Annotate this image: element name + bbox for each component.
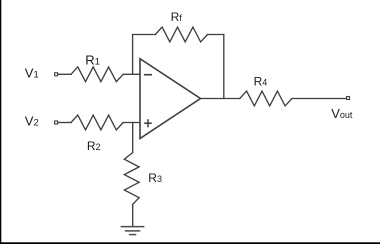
- svg-text:Vout: Vout: [331, 106, 353, 121]
- resistor Rf: [155, 27, 207, 42]
- svg-text:R3: R3: [148, 171, 162, 185]
- resistor R1: [71, 67, 123, 82]
- resistor R4: [240, 91, 292, 106]
- wire Rf to feedback right corner: [208, 34, 224, 36]
- wire op-amp output to R4: [201, 98, 240, 100]
- wire R1 to op-amp inverting input: [123, 73, 140, 75]
- terminal V2: [55, 121, 58, 124]
- svg-text:R2: R2: [87, 139, 101, 153]
- terminal V1: [55, 73, 58, 76]
- wire R2 to op-amp non-inverting input: [123, 122, 140, 124]
- junction feedback tap on inverting input: [132, 35, 134, 75]
- axis frame left: [0, 0, 1, 244]
- op-amp non-inverting pin plus sign: [144, 119, 152, 127]
- axis frame bottom: [0, 242, 380, 244]
- svg-text:Rf: Rf: [171, 10, 183, 24]
- svg-text:V1: V1: [25, 66, 39, 81]
- wire feedback right vertical to output node: [223, 35, 225, 99]
- wire V1 terminal to R1: [58, 73, 71, 75]
- junction R3 tap on non-inverting input: [132, 123, 134, 153]
- wire feedback top left: [133, 34, 156, 36]
- wire R3 to ground: [132, 205, 134, 227]
- wire V2 terminal to R2: [58, 122, 71, 124]
- ground: [121, 227, 143, 235]
- svg-text:R4: R4: [254, 75, 268, 89]
- resistor R2: [71, 115, 123, 130]
- svg-text:V2: V2: [25, 114, 39, 129]
- op-amp inverting pin minus sign: [144, 74, 152, 76]
- svg-text:R1: R1: [85, 53, 100, 68]
- wire R4 to Vout terminal: [292, 98, 346, 100]
- resistor R3: [124, 153, 139, 205]
- terminal Vout: [347, 97, 350, 100]
- op-amp U1: [140, 59, 201, 139]
